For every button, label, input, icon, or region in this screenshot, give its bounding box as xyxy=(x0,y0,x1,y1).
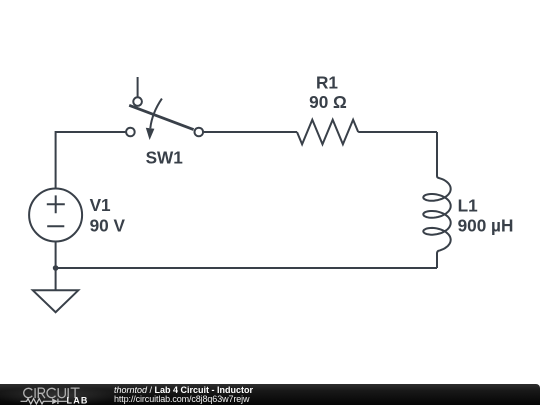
switch right terminal circle xyxy=(195,128,204,137)
switch left terminal circle xyxy=(126,128,135,137)
logo letter U xyxy=(58,388,65,398)
inductor L1 coil xyxy=(423,132,450,268)
switch SW1 xyxy=(126,77,203,140)
resistor R1 zigzag xyxy=(297,120,358,145)
switch blade xyxy=(129,105,193,129)
V1 minus sign xyxy=(47,225,64,227)
logo letter C xyxy=(24,388,32,397)
wire SW1 right terminal to resistor R1 xyxy=(204,131,297,133)
switch top terminal circle xyxy=(133,97,142,106)
attribution line 1 xyxy=(114,385,253,395)
CircuitLab logo xyxy=(0,384,100,405)
svg-text:90 V: 90 V xyxy=(90,216,126,236)
logo letter T xyxy=(71,388,80,398)
logo diode bar xyxy=(57,398,59,403)
svg-text:LAB: LAB xyxy=(67,395,89,405)
svg-text:SW1: SW1 xyxy=(146,148,184,168)
wire R1 to top-right corner xyxy=(358,131,437,133)
logo waveform resistor xyxy=(21,398,67,403)
V1 plus sign xyxy=(47,195,65,213)
wire SW1 top stub xyxy=(137,77,139,97)
logo letter I xyxy=(34,388,36,398)
voltage source V1 circle xyxy=(29,189,82,242)
switch actuation arc xyxy=(150,99,162,129)
wire bottom from inductor to ground node xyxy=(56,267,437,269)
attribution line 2 url xyxy=(114,394,249,404)
svg-text:900 µH: 900 µH xyxy=(458,216,514,236)
ground wire stub xyxy=(55,268,57,290)
svg-text:V1: V1 xyxy=(90,195,111,215)
wire V1 bottom to node xyxy=(55,242,57,269)
logo letter I2 xyxy=(67,388,69,398)
switch arrow head xyxy=(146,128,155,140)
svg-text:L1: L1 xyxy=(458,195,478,215)
ground symbol triangle xyxy=(33,290,79,312)
logo letter C2 xyxy=(47,388,55,397)
wire V1 top to SW1 left terminal xyxy=(56,132,126,189)
logo diode triangle xyxy=(52,398,58,404)
svg-text:R1: R1 xyxy=(316,73,338,93)
svg-text:90 Ω: 90 Ω xyxy=(309,92,347,112)
node junction dot xyxy=(53,265,59,271)
logo letter R xyxy=(38,388,45,398)
